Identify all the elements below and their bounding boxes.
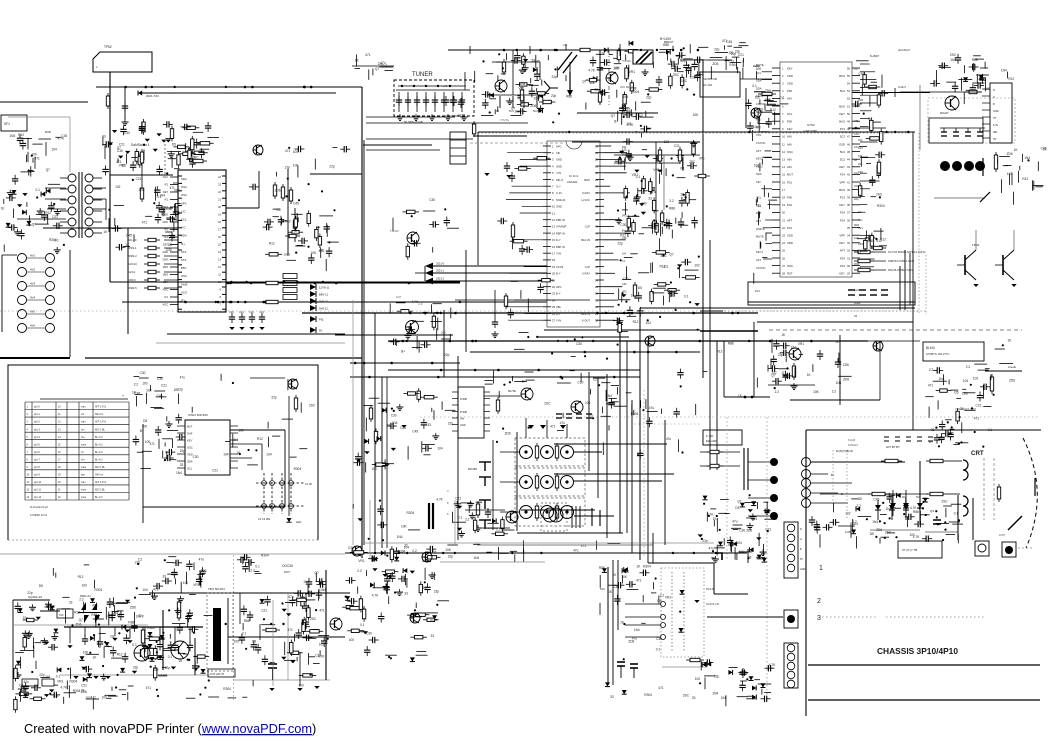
capacitor bbox=[173, 208, 179, 218]
svg-text:VPP: VPP bbox=[839, 234, 845, 238]
svg-text:man: man bbox=[81, 482, 86, 484]
IC U301 pin stub L22 bbox=[543, 286, 551, 288]
svg-text:MUT: MUT bbox=[787, 173, 793, 177]
svg-text:5: 5 bbox=[552, 171, 554, 175]
wire bbox=[506, 306, 543, 308]
wire bbox=[164, 271, 178, 273]
resistor bbox=[359, 596, 362, 613]
svg-text:MUTE: MUTE bbox=[756, 235, 764, 239]
resistor bbox=[625, 65, 628, 82]
wire bbox=[226, 282, 460, 284]
connector pin P4 bbox=[770, 512, 778, 520]
svg-text:OSC: OSC bbox=[187, 446, 193, 450]
wire bbox=[526, 379, 535, 381]
svg-text:LED: LED bbox=[296, 520, 301, 524]
capacitor bbox=[421, 342, 431, 348]
junction bbox=[947, 421, 949, 423]
IC U401 pin stub L18 bbox=[772, 196, 780, 198]
ground bbox=[519, 67, 526, 73]
wire bbox=[857, 238, 866, 240]
wire dotted box bottom bbox=[8, 539, 318, 541]
IC U401 pin stub L5 bbox=[772, 97, 780, 99]
jumper pad bbox=[270, 504, 275, 509]
crystal X201 striped box bbox=[633, 50, 653, 64]
wire bbox=[146, 393, 148, 404]
svg-text:31: 31 bbox=[595, 298, 599, 302]
capacitor bbox=[780, 343, 790, 349]
wire bbox=[671, 230, 673, 239]
wire bbox=[507, 152, 543, 154]
IC U301 pin stub L25 bbox=[543, 306, 551, 308]
svg-text:D5: D5 bbox=[277, 208, 281, 212]
wire bbox=[769, 201, 771, 209]
wire bbox=[143, 149, 145, 160]
IC U101 pin 9 stub bbox=[170, 236, 178, 238]
wire dashed bbox=[1018, 547, 1032, 549]
wire bbox=[579, 506, 581, 528]
svg-text:0.1: 0.1 bbox=[255, 565, 260, 569]
wire bbox=[667, 52, 669, 60]
resistor R153 bbox=[289, 187, 292, 204]
svg-text:38: 38 bbox=[847, 203, 850, 207]
capacitor bbox=[53, 223, 63, 229]
resistor R621 bbox=[686, 658, 704, 661]
svg-text:R12: R12 bbox=[74, 611, 80, 615]
ground bbox=[432, 433, 439, 439]
capacitor C213 bbox=[423, 96, 429, 106]
svg-text:Q7: Q7 bbox=[582, 80, 586, 84]
wire bbox=[894, 88, 896, 97]
wire bbox=[36, 214, 44, 216]
wire bbox=[27, 285, 45, 287]
wire bbox=[624, 257, 633, 259]
svg-text:47: 47 bbox=[595, 191, 599, 195]
svg-text:1N4: 1N4 bbox=[232, 438, 238, 442]
svg-text:ZD6: ZD6 bbox=[505, 431, 511, 435]
svg-text:AFT-2 KY1: AFT-2 KY1 bbox=[95, 481, 107, 484]
svg-text:2.2: 2.2 bbox=[966, 365, 971, 369]
IC U301 pin stub R13 bbox=[596, 225, 604, 227]
wire dashed bbox=[164, 140, 166, 175]
svg-text:1K: 1K bbox=[93, 656, 98, 660]
svg-text:P14: P14 bbox=[840, 173, 845, 177]
svg-text:KEY: KEY bbox=[839, 272, 845, 276]
capacitor bbox=[163, 121, 173, 127]
wire bbox=[759, 163, 761, 172]
svg-text:1N4: 1N4 bbox=[836, 381, 842, 385]
svg-text:F-101: F-101 bbox=[706, 434, 714, 438]
wire bbox=[368, 70, 370, 80]
capacitor bbox=[189, 158, 195, 168]
CRT bell dashed arc bbox=[1023, 438, 1037, 548]
wire bbox=[93, 221, 102, 223]
junction bbox=[935, 427, 937, 429]
capacitor bbox=[639, 570, 649, 576]
wire bbox=[951, 503, 962, 505]
wire bbox=[702, 60, 704, 378]
resistor bbox=[265, 253, 282, 256]
wire bbox=[433, 272, 547, 274]
svg-text:Q3: Q3 bbox=[930, 509, 934, 513]
svg-text:GND: GND bbox=[162, 221, 168, 224]
wire bbox=[604, 306, 614, 308]
CN601 pin 2 bbox=[787, 534, 795, 542]
resistor bbox=[492, 532, 509, 535]
wire bbox=[509, 272, 543, 274]
IC U101 pin 14 stub bbox=[170, 274, 178, 276]
svg-text:24: 24 bbox=[218, 175, 221, 179]
svg-text:102: 102 bbox=[845, 512, 851, 516]
svg-text:IF1: IF1 bbox=[164, 199, 168, 202]
wire bbox=[142, 450, 152, 452]
diode bbox=[703, 496, 708, 500]
capacitor bbox=[517, 92, 523, 102]
svg-text:R304: R304 bbox=[854, 301, 861, 305]
junction bbox=[625, 301, 627, 303]
coil L64 bbox=[541, 476, 554, 489]
capacitor bbox=[205, 122, 211, 132]
capacitor C123 bbox=[259, 313, 265, 323]
svg-text:471: 471 bbox=[150, 442, 156, 446]
svg-text:R304: R304 bbox=[223, 687, 231, 691]
HV terminal bbox=[1005, 546, 1013, 554]
resistor bbox=[501, 517, 504, 532]
wire bbox=[164, 263, 178, 265]
coil L62 bbox=[561, 446, 574, 459]
capacitor bbox=[771, 355, 777, 365]
diode LED D175 bbox=[310, 327, 316, 333]
wire bbox=[1011, 173, 1013, 186]
svg-text:32: 32 bbox=[595, 292, 599, 296]
svg-text:46: 46 bbox=[847, 142, 850, 146]
svg-text:4.7K: 4.7K bbox=[913, 535, 920, 539]
transistor Q905 bbox=[964, 255, 966, 275]
svg-text:21: 21 bbox=[782, 218, 785, 222]
svg-text:42: 42 bbox=[847, 173, 850, 177]
capacitor bbox=[623, 112, 633, 118]
IC U401 pin stub R11 bbox=[852, 143, 860, 145]
svg-text:R304: R304 bbox=[261, 554, 269, 558]
wire bbox=[737, 67, 739, 73]
wire bbox=[975, 58, 984, 60]
svg-text:R12: R12 bbox=[117, 653, 123, 657]
svg-text:KCYC8 PAD36 SATBA1.TA4T2: KCYC8 PAD36 SATBA1.TA4T2 bbox=[888, 250, 926, 254]
junction bbox=[701, 538, 703, 540]
svg-text:45: 45 bbox=[847, 150, 850, 154]
wire bbox=[679, 265, 681, 278]
wire dotted bbox=[671, 572, 673, 652]
junction bbox=[960, 441, 962, 443]
capacitor bbox=[764, 665, 774, 671]
wire bbox=[614, 405, 627, 407]
wire bbox=[365, 542, 714, 544]
svg-text:ZD6: ZD6 bbox=[843, 363, 849, 367]
wire bbox=[476, 501, 482, 503]
svg-text:FBP-IN: FBP-IN bbox=[556, 231, 565, 235]
wire bbox=[470, 351, 700, 353]
svg-text:41: 41 bbox=[847, 180, 850, 184]
wire bbox=[34, 157, 36, 169]
IC U401 pin stub R7 bbox=[852, 113, 860, 115]
wire dotted bbox=[918, 133, 920, 315]
ground bbox=[108, 142, 113, 145]
diode bbox=[387, 574, 391, 579]
svg-text:13: 13 bbox=[27, 497, 30, 499]
wire dotted bbox=[726, 417, 728, 560]
ground bbox=[156, 133, 161, 136]
ground bbox=[461, 114, 468, 120]
wire bbox=[725, 513, 730, 515]
wire bbox=[604, 192, 630, 194]
svg-text:102: 102 bbox=[694, 264, 700, 268]
svg-text:D5: D5 bbox=[858, 497, 862, 501]
deflection yoke coil H bbox=[963, 460, 968, 480]
diode D201 bbox=[138, 91, 142, 96]
wire bbox=[424, 266, 426, 281]
resistor bbox=[522, 53, 525, 67]
svg-text:5: 5 bbox=[27, 437, 29, 439]
wire bbox=[946, 81, 956, 83]
wire capacitor plate bbox=[599, 510, 601, 526]
wire bbox=[936, 70, 938, 82]
svg-text:47u: 47u bbox=[560, 421, 566, 425]
svg-text:5V: 5V bbox=[319, 329, 323, 333]
capacitor C351 bbox=[492, 318, 498, 328]
wire bbox=[137, 451, 143, 453]
wire bbox=[511, 376, 513, 381]
capacitor bbox=[20, 140, 26, 150]
svg-text:12V8-11: 12V8-11 bbox=[319, 286, 330, 290]
wire bbox=[608, 425, 610, 430]
diode bbox=[923, 498, 928, 502]
capacitor C216 bbox=[450, 96, 456, 106]
resistor bbox=[859, 183, 862, 199]
capacitor bbox=[194, 139, 200, 149]
wire bbox=[596, 53, 604, 55]
svg-text:C21: C21 bbox=[738, 53, 744, 57]
svg-text:9: 9 bbox=[220, 288, 222, 292]
IC U301 pin stub R3 bbox=[596, 158, 604, 160]
wire bbox=[909, 253, 911, 305]
wire CRT board top bbox=[806, 429, 1041, 431]
svg-text:2021-2: 2021-2 bbox=[436, 277, 445, 281]
wire bbox=[761, 159, 763, 165]
svg-text:24: 24 bbox=[782, 241, 785, 245]
svg-text:102: 102 bbox=[1007, 172, 1013, 176]
IC U401 pin stub R3 bbox=[852, 82, 860, 84]
capacitor bbox=[745, 99, 751, 109]
svg-text:Q7: Q7 bbox=[669, 253, 673, 257]
svg-text:+: + bbox=[122, 394, 124, 398]
IC U301 pin stub R18 bbox=[596, 259, 604, 261]
wire bbox=[47, 214, 49, 224]
capacitor bbox=[970, 84, 976, 94]
wire bbox=[389, 303, 391, 313]
svg-text:42: 42 bbox=[595, 225, 599, 229]
wire bbox=[294, 208, 296, 242]
svg-text:(u)PD1986: (u)PD1986 bbox=[803, 129, 817, 133]
resistor bbox=[423, 618, 439, 621]
svg-text:1K: 1K bbox=[854, 158, 857, 162]
shield box top-left bbox=[93, 52, 152, 72]
capacitor bbox=[155, 426, 161, 436]
svg-text:51: 51 bbox=[847, 104, 850, 108]
IC U401 pin stub L23 bbox=[772, 234, 780, 236]
wire bbox=[771, 339, 773, 353]
svg-text:6: 6 bbox=[27, 444, 29, 446]
capacitor C215 bbox=[441, 96, 447, 106]
svg-text:2.2: 2.2 bbox=[669, 199, 674, 203]
wire bbox=[937, 400, 939, 409]
IC U401 pin stub R19 bbox=[852, 204, 860, 206]
svg-text:12: 12 bbox=[27, 490, 30, 492]
ground bbox=[153, 149, 158, 152]
wire bbox=[164, 287, 178, 289]
svg-text:100: 100 bbox=[854, 184, 859, 188]
wire bbox=[473, 543, 480, 545]
wire bbox=[683, 58, 692, 60]
svg-text:102: 102 bbox=[646, 321, 652, 325]
svg-text:R12: R12 bbox=[1022, 177, 1028, 181]
svg-text:VR1: VR1 bbox=[519, 87, 525, 91]
capacitor bbox=[614, 595, 620, 605]
svg-text:Y-IN: Y-IN bbox=[556, 319, 561, 323]
wire bbox=[630, 253, 637, 255]
IC U601 pin 3 bbox=[661, 623, 666, 628]
diode bbox=[963, 77, 968, 81]
wire bbox=[922, 498, 929, 500]
svg-text:ZD6: ZD6 bbox=[81, 690, 87, 694]
capacitor bbox=[674, 408, 680, 418]
wire bbox=[60, 221, 68, 223]
capacitor bbox=[869, 176, 875, 186]
svg-text:CRC3: CRC3 bbox=[128, 278, 136, 282]
svg-text:102: 102 bbox=[771, 371, 777, 375]
svg-text:C30: C30 bbox=[620, 223, 626, 227]
wire bbox=[395, 342, 397, 346]
resistor bbox=[642, 176, 645, 192]
wire bbox=[980, 67, 988, 69]
svg-text:KEY2: KEY2 bbox=[756, 157, 763, 161]
svg-text:2SC: 2SC bbox=[942, 500, 949, 504]
wire bbox=[542, 98, 544, 105]
wire bbox=[284, 430, 286, 507]
capacitor bbox=[6, 195, 16, 201]
wire bbox=[436, 328, 438, 340]
svg-text:3: 3 bbox=[817, 615, 821, 622]
junction bbox=[437, 85, 439, 87]
svg-text:VDD: VDD bbox=[787, 74, 793, 78]
svg-text:2SC: 2SC bbox=[310, 617, 317, 621]
svg-text:X-RAY: X-RAY bbox=[582, 191, 590, 195]
IC U401 pin stub L25 bbox=[772, 249, 780, 251]
wire bbox=[762, 257, 767, 259]
svg-text:13: 13 bbox=[218, 258, 221, 262]
wire bbox=[658, 596, 660, 604]
svg-text:7.5V B+: 7.5V B+ bbox=[500, 118, 510, 122]
wire bbox=[381, 377, 383, 548]
svg-text:C45: C45 bbox=[873, 498, 879, 502]
svg-text:SCL: SCL bbox=[756, 71, 762, 75]
wire bbox=[710, 66, 712, 79]
connector pin 3 bbox=[18, 282, 27, 291]
svg-text:C21: C21 bbox=[858, 146, 863, 150]
svg-text:ZD6: ZD6 bbox=[1009, 378, 1015, 382]
svg-text:IF1: IF1 bbox=[164, 296, 168, 299]
svg-text:IF1: IF1 bbox=[164, 236, 168, 239]
svg-text:47: 47 bbox=[847, 135, 850, 139]
capacitor bbox=[426, 546, 436, 552]
svg-text:R12: R12 bbox=[285, 220, 291, 224]
capacitor bbox=[761, 696, 771, 702]
capacitor bbox=[905, 514, 915, 520]
wire bbox=[700, 451, 740, 453]
capacitor bbox=[640, 126, 650, 132]
ground bbox=[645, 155, 650, 158]
IC U401 pin stub L28 bbox=[772, 272, 780, 274]
svg-text:1K: 1K bbox=[713, 517, 718, 521]
svg-text:471: 471 bbox=[285, 149, 291, 153]
wire bbox=[593, 377, 605, 379]
svg-text:0.1: 0.1 bbox=[108, 614, 113, 618]
capacitor bbox=[264, 219, 274, 225]
wire bbox=[758, 683, 772, 685]
resistor R151 bbox=[273, 182, 276, 199]
wire bbox=[725, 60, 730, 62]
svg-text:dy1-7: dy1-7 bbox=[34, 459, 40, 461]
svg-text:C30: C30 bbox=[166, 248, 172, 252]
wire bbox=[808, 699, 1040, 701]
svg-text:VCC9: VCC9 bbox=[556, 265, 564, 269]
svg-text:R304: R304 bbox=[49, 238, 57, 242]
svg-text:10: 10 bbox=[58, 407, 61, 409]
svg-text:B+: B+ bbox=[868, 117, 872, 121]
ground bbox=[619, 151, 624, 154]
ground bbox=[401, 425, 406, 428]
junction bbox=[662, 254, 664, 256]
svg-text:KEY1: KEY1 bbox=[756, 250, 763, 254]
wire bbox=[738, 45, 748, 47]
wire bbox=[661, 163, 663, 175]
wire bbox=[625, 636, 660, 638]
wire bbox=[604, 252, 613, 254]
svg-text:ZD6: ZD6 bbox=[1007, 152, 1013, 156]
svg-text:10K: 10K bbox=[621, 575, 628, 579]
IC U301 pin stub R26 bbox=[596, 313, 604, 315]
wire bbox=[291, 213, 302, 215]
wire bbox=[626, 341, 628, 533]
ground bbox=[749, 514, 756, 520]
junction bbox=[749, 494, 751, 496]
wire bbox=[168, 158, 176, 160]
svg-text:C30: C30 bbox=[656, 637, 662, 641]
svg-text:dy1-3: dy1-3 bbox=[34, 429, 40, 431]
capacitor bbox=[677, 369, 683, 379]
svg-text:4: 4 bbox=[27, 429, 29, 431]
capacitor bbox=[482, 99, 488, 109]
wire bbox=[363, 405, 373, 407]
svg-text:R12: R12 bbox=[1008, 77, 1014, 81]
wire bbox=[350, 362, 460, 364]
wire bbox=[416, 654, 428, 656]
resistor bbox=[627, 215, 630, 230]
wire bbox=[982, 116, 990, 118]
wire bbox=[520, 212, 543, 214]
capacitor bbox=[692, 60, 698, 70]
junction bbox=[958, 443, 960, 445]
wire bbox=[745, 502, 757, 504]
svg-text:ZD6: ZD6 bbox=[962, 392, 968, 396]
